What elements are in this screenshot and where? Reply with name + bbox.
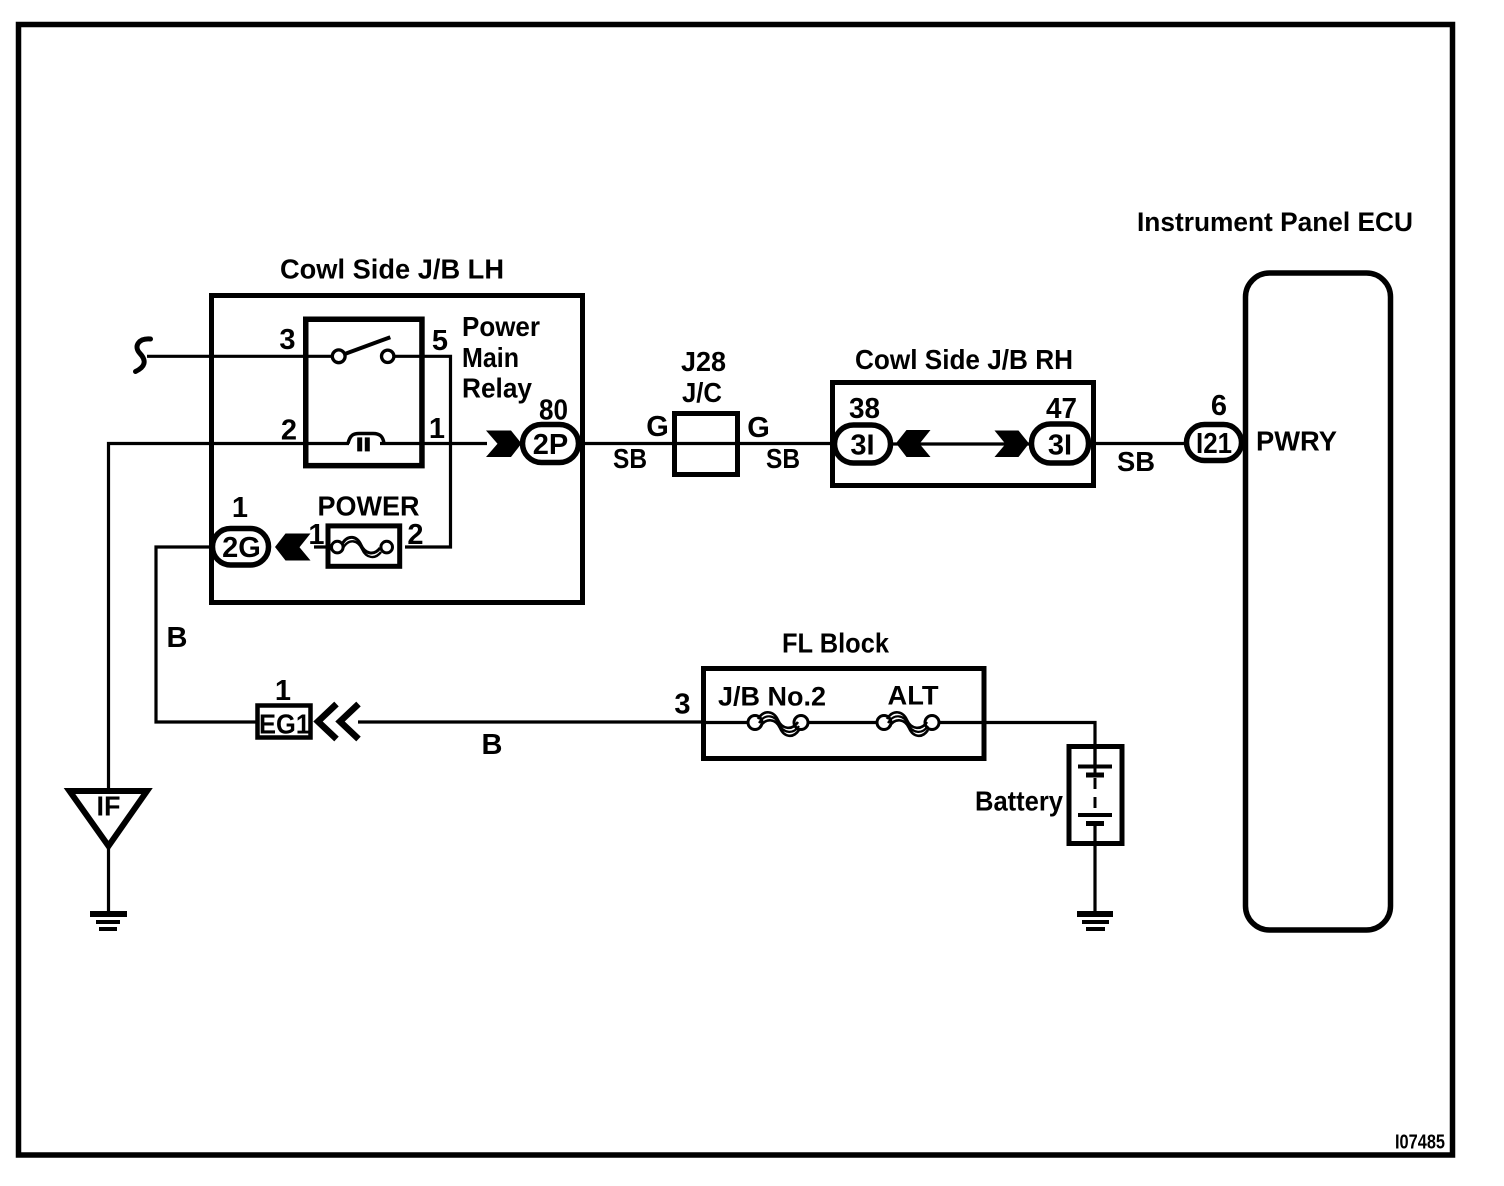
svg-text:B: B [167,622,188,654]
svg-text:Instrument Panel ECU: Instrument Panel ECU [1137,207,1413,237]
svg-text:I07485: I07485 [1395,1132,1445,1154]
svg-text:Main: Main [462,342,519,373]
svg-text:SB: SB [613,443,647,474]
svg-text:G: G [646,411,669,443]
svg-text:IF: IF [97,791,121,822]
svg-text:2P: 2P [533,429,568,461]
svg-text:6: 6 [1211,390,1227,422]
svg-text:Relay: Relay [462,373,532,404]
svg-text:1: 1 [429,413,445,445]
svg-text:ALT: ALT [888,681,940,711]
svg-text:3I: 3I [1048,430,1072,462]
svg-text:1: 1 [275,675,291,707]
svg-text:G: G [747,412,770,444]
svg-text:J/C: J/C [682,377,722,408]
svg-text:1: 1 [232,492,248,524]
svg-text:FL Block: FL Block [782,628,889,659]
svg-text:EG1: EG1 [259,709,310,740]
svg-text:3: 3 [279,324,295,356]
svg-text:J/B No.2: J/B No.2 [718,682,826,712]
svg-text:38: 38 [849,393,880,425]
svg-text:5: 5 [432,325,448,357]
svg-text:SB: SB [1117,446,1155,477]
svg-text:POWER: POWER [318,491,420,522]
svg-text:47: 47 [1046,393,1077,425]
svg-text:3: 3 [674,689,690,721]
svg-text:SB: SB [766,443,800,474]
svg-text:I21: I21 [1196,428,1232,460]
svg-text:1: 1 [308,519,324,551]
svg-text:3I: 3I [850,430,874,462]
svg-text:80: 80 [539,395,568,427]
svg-text:Power: Power [462,311,540,342]
svg-text:PWRY: PWRY [1256,426,1337,457]
svg-text:B: B [482,729,503,761]
svg-text:Cowl Side J/B LH: Cowl Side J/B LH [280,254,504,285]
svg-text:2: 2 [407,519,423,551]
svg-text:2G: 2G [222,532,261,564]
svg-text:J28: J28 [681,346,726,377]
svg-text:Battery: Battery [975,786,1063,817]
svg-text:2: 2 [281,415,297,447]
svg-text:Cowl Side J/B RH: Cowl Side J/B RH [855,344,1073,375]
